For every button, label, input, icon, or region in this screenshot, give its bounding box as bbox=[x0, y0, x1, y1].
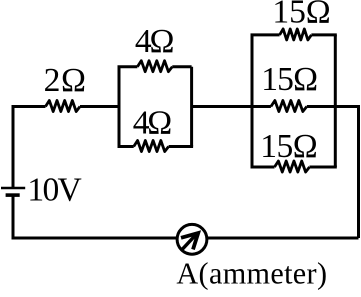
wire: 15-ohm top branch right lead bbox=[311, 33, 336, 36]
svg-text:15Ω: 15Ω bbox=[272, 0, 330, 30]
resistor R5 15ohm middle branch bbox=[271, 101, 307, 112]
wire: 15-ohm bottom branch right lead bbox=[310, 166, 337, 169]
node/wire: 4-ohm group right edge bbox=[190, 67, 193, 147]
wire: 4-ohm bottom branch left lead bbox=[118, 145, 134, 148]
svg-text:15Ω: 15Ω bbox=[260, 128, 317, 165]
wire: 15-ohm middle branch left lead bbox=[252, 105, 271, 108]
wire: 4-ohm bottom branch right lead bbox=[169, 145, 194, 148]
wire: 4-ohm top branch right lead bbox=[172, 65, 191, 68]
wire: bottom rail from ammeter to battery negative bbox=[13, 196, 177, 238]
wire: 15-ohm middle branch right lead bbox=[307, 105, 336, 108]
svg-text:A(ammeter): A(ammeter) bbox=[176, 256, 327, 290]
wire: 4-ohm group to 15-ohm parallel group bbox=[192, 105, 252, 108]
resistor R2 4ohm top branch bbox=[137, 61, 172, 72]
ammeter A1 needle arrow head bbox=[181, 233, 198, 249]
resistor R1 2ohm bbox=[46, 101, 81, 112]
svg-text:4Ω: 4Ω bbox=[133, 105, 172, 142]
svg-text:10V: 10V bbox=[27, 171, 81, 208]
resistor R4 15ohm top branch bbox=[280, 29, 312, 40]
node/wire: 4-ohm group left edge bbox=[118, 67, 121, 147]
svg-text:15Ω: 15Ω bbox=[261, 61, 318, 98]
battery B1 positive plate (long) bbox=[1, 187, 25, 189]
battery B1 negative plate (short) bbox=[6, 193, 20, 197]
wire: 4-ohm top branch left lead bbox=[118, 65, 138, 68]
wire: 15-ohm top branch left lead bbox=[251, 33, 280, 36]
node/wire: 15-ohm group right edge bbox=[334, 35, 337, 167]
resistor R3 4ohm bottom branch bbox=[134, 141, 169, 152]
node/wire: 15-ohm group left edge bbox=[251, 35, 254, 167]
ammeter A1 needle arrow shaft bbox=[182, 235, 196, 250]
svg-text:2Ω: 2Ω bbox=[44, 62, 86, 99]
wire: battery positive up left side and top rail to 2-ohm resistor bbox=[13, 107, 46, 188]
svg-text:4Ω: 4Ω bbox=[135, 23, 175, 60]
wire: 2-ohm resistor to 4-ohm parallel group bbox=[80, 105, 119, 108]
wire: 15-ohm group output to right vertical drop bbox=[335, 107, 358, 239]
ammeter A1 body circle bbox=[177, 224, 207, 254]
wire: 15-ohm bottom branch left lead bbox=[251, 166, 275, 169]
resistor R6 15ohm bottom branch bbox=[275, 161, 310, 172]
wire: bottom rail from right drop to ammeter bbox=[207, 237, 358, 240]
